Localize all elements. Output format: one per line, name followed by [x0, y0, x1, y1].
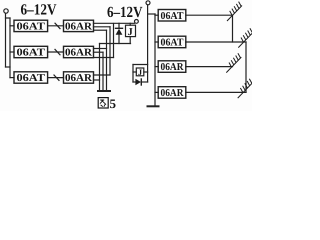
- svg-text:06AT: 06AT: [161, 38, 184, 49]
- svg-text:6–12V: 6–12V: [107, 4, 143, 21]
- svg-text:J: J: [128, 27, 133, 38]
- svg-text:06AT: 06AT: [161, 11, 184, 22]
- svg-text:06AT: 06AT: [17, 22, 46, 33]
- svg-text:06AT: 06AT: [17, 48, 46, 59]
- svg-text:06AT: 06AT: [17, 73, 46, 84]
- svg-text:5: 5: [110, 96, 117, 111]
- svg-text:06AR: 06AR: [161, 62, 184, 73]
- svg-text:06AR: 06AR: [65, 48, 92, 59]
- svg-text:06AR: 06AR: [65, 73, 92, 84]
- svg-text:J: J: [138, 67, 143, 77]
- svg-text:6–12V: 6–12V: [21, 2, 58, 19]
- svg-text:06AR: 06AR: [65, 22, 92, 33]
- svg-text:06AR: 06AR: [161, 88, 184, 99]
